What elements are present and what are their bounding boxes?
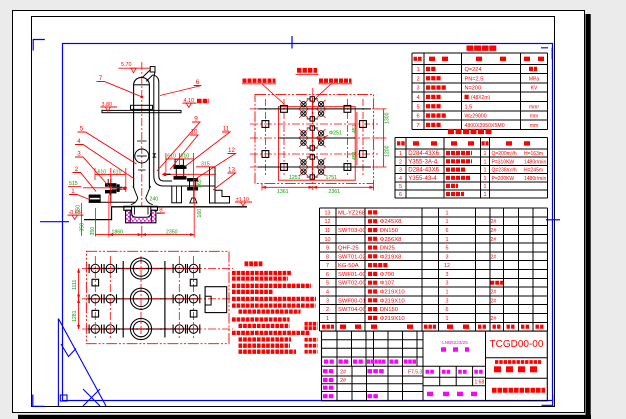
svg-text:1:68: 1:68 (475, 380, 485, 386)
svg-text:PN=2.5: PN=2.5 (465, 76, 484, 82)
svg-text:Φ251: Φ251 (329, 131, 342, 137)
elevation: valve feet (190, 198, 197, 203)
top view: label right (319, 78, 352, 82)
top view: inner vertical dim (356, 112, 358, 165)
svg-text:(48X2m): (48X2m) (471, 95, 491, 101)
table2 grid (395, 137, 548, 198)
svg-text:F7.5.3: F7.5.3 (408, 369, 422, 375)
svg-text:3: 3 (446, 272, 449, 278)
svg-text:DN150: DN150 (380, 307, 399, 313)
fold triangle (58, 319, 106, 407)
svg-text:D284-43X6: D284-43X6 (408, 150, 439, 157)
elevation: level ball inside vessel (135, 149, 149, 163)
drawing frame blue (63, 44, 553, 401)
svg-text:Y355-3A-4: Y355-3A-4 (408, 158, 438, 165)
corner mark bottom-left (33, 395, 45, 407)
centering tick right (546, 219, 560, 221)
svg-text:3: 3 (416, 86, 419, 92)
svg-text:1: 1 (484, 159, 487, 165)
svg-text:451: 451 (352, 151, 358, 160)
dim 610+610 right (166, 158, 194, 160)
top view: row centerlines (250, 108, 378, 110)
svg-text:4: 4 (77, 138, 81, 145)
svg-text:3: 3 (326, 298, 329, 304)
corner mark top-right (541, 48, 552, 60)
elevation: support post item13 (210, 167, 216, 203)
elevation: pipe joint mark (153, 154, 157, 157)
svg-text:6: 6 (416, 114, 419, 120)
inner sheet frame (32, 17, 555, 407)
svg-text:Φ219X10: Φ219X10 (380, 316, 406, 322)
svg-text:TCGD00-00: TCGD00-00 (490, 339, 544, 350)
svg-text:1: 1 (416, 67, 419, 73)
svg-text:1: 1 (446, 290, 449, 296)
svg-text:2#: 2# (491, 316, 497, 322)
svg-text:SWT03-00: SWT03-00 (338, 228, 366, 234)
svg-text:1111: 1111 (72, 280, 78, 290)
corner mark top-left (33, 40, 45, 51)
bottom dim line elevation (95, 234, 194, 236)
svg-text:150: 150 (76, 205, 82, 214)
svg-text:1: 1 (399, 151, 402, 157)
svg-text:1860: 1860 (112, 229, 124, 235)
svg-text:3: 3 (77, 151, 81, 158)
svg-text:Φ219X10: Φ219X10 (380, 290, 406, 296)
elevation: red centerline pump suction left (83, 187, 127, 189)
svg-text:H=163m: H=163m (524, 151, 543, 157)
svg-text:1: 1 (446, 210, 449, 216)
top view: centerline vertical (312, 88, 314, 190)
svg-text:SWT01-02: SWT01-02 (338, 254, 366, 260)
svg-text:1.5: 1.5 (465, 104, 473, 110)
elevation: red centerline pump suction right (162, 173, 216, 175)
title block signature rows (323, 369, 335, 373)
elevation: centerline (141, 62, 143, 226)
svg-text:5: 5 (80, 126, 84, 133)
svg-text:SWT04-00: SWT04-00 (338, 307, 366, 313)
elevation: vessel internal marks (137, 140, 147, 142)
svg-text:5.70: 5.70 (121, 62, 132, 68)
svg-text:5: 5 (326, 281, 329, 287)
table2 title (448, 129, 492, 134)
elevation: pipe top elbow cap (150, 67, 155, 72)
svg-text:2: 2 (75, 166, 79, 173)
svg-text:2#: 2# (340, 369, 346, 375)
svg-text:DN25: DN25 (380, 246, 396, 252)
svg-text:4: 4 (399, 176, 402, 182)
svg-text:6: 6 (196, 79, 200, 86)
top view: label left (243, 78, 276, 82)
fold corner square (60, 395, 67, 401)
svg-text:2#: 2# (491, 298, 497, 304)
svg-text:2#: 2# (491, 254, 497, 260)
title block right: project line (495, 360, 541, 364)
svg-text:1: 1 (484, 184, 487, 190)
top view: anchor bolt squares outer (262, 121, 269, 128)
notes: title (245, 261, 264, 266)
svg-text:Φ245X8: Φ245X8 (380, 219, 402, 225)
title block right: company (492, 388, 545, 393)
top view: bolt clusters (311, 97, 313, 121)
elevation: pipe bottom bend (154, 168, 215, 186)
BOM grid (320, 208, 548, 331)
svg-text:Φ219X8: Φ219X8 (380, 254, 402, 260)
svg-text:SWF00-01: SWF00-01 (338, 298, 366, 304)
page shadow right (586, 14, 591, 419)
svg-text:9: 9 (326, 246, 329, 252)
table2 header (397, 141, 405, 145)
svg-text:2#: 2# (491, 237, 497, 243)
title block sheet counts (427, 392, 433, 396)
top view: column centerlines (264, 99, 266, 176)
svg-text:1: 1 (484, 192, 487, 198)
title block labels row (324, 360, 334, 364)
note text beside 4.10 (197, 99, 209, 103)
plan: main pipes vertical (122, 261, 124, 338)
svg-text:11: 11 (223, 126, 230, 133)
svg-text:Y355-43-4: Y355-43-4 (408, 175, 437, 182)
svg-text:DN150: DN150 (380, 228, 399, 234)
svg-text:6: 6 (446, 228, 449, 234)
centering tick left (40, 221, 69, 223)
elevation: vessel cylinder (134, 77, 150, 188)
top view: inner foundation rect (278, 107, 355, 181)
svg-text:610: 610 (113, 169, 122, 175)
svg-text:12: 12 (325, 219, 331, 225)
svg-text:1: 1 (484, 151, 487, 157)
svg-text:1: 1 (484, 176, 487, 182)
svg-text:13: 13 (228, 167, 235, 174)
svg-text:610: 610 (181, 154, 190, 160)
elevation: left valve flanges (106, 184, 117, 187)
svg-text:610: 610 (167, 154, 176, 160)
svg-text:H=245m: H=245m (524, 168, 543, 174)
elevation: left pump block (89, 195, 100, 202)
elevation: foundation cap (124, 206, 158, 210)
svg-text:610: 610 (98, 169, 107, 175)
svg-text:3: 3 (446, 254, 449, 260)
svg-text:1: 1 (326, 316, 329, 322)
svg-text:Φ256X8: Φ256X8 (380, 237, 402, 243)
elevation: riser pipe (154, 72, 155, 168)
svg-text:4: 4 (326, 290, 329, 296)
svg-text:12: 12 (444, 263, 450, 269)
svg-text:Φ700: Φ700 (380, 272, 395, 278)
elevation: foundation hatched block (126, 210, 156, 223)
svg-text:W≥29000: W≥29000 (465, 114, 487, 120)
svg-text:13: 13 (325, 210, 331, 216)
corner mark bottom-right (542, 395, 554, 406)
svg-text:P=200KW: P=200KW (492, 176, 515, 182)
top view: outer dash-dot rect (255, 94, 374, 183)
elevation: vessel top seam (134, 84, 150, 86)
title block middle headers (426, 370, 436, 374)
svg-text:8: 8 (159, 207, 163, 214)
plan: main pipes horizontal (88, 268, 200, 270)
svg-text:4800X3950X5M0: 4800X3950X5M0 (465, 123, 505, 129)
top view: right dim (383, 109, 385, 167)
svg-text:MPa: MPa (529, 76, 540, 82)
svg-text:mm: mm (530, 114, 538, 120)
title block left grid (322, 339, 424, 341)
svg-text:1200: 1200 (385, 145, 391, 157)
svg-text:1: 1 (446, 219, 449, 225)
svg-text:6: 6 (326, 272, 329, 278)
plan: red centerlines (82, 268, 233, 270)
svg-text:5: 5 (446, 246, 449, 252)
svg-text:Q=238m³/h: Q=238m³/h (492, 168, 517, 174)
svg-text:6: 6 (399, 192, 402, 198)
elevation: left stub to gauge (112, 186, 123, 188)
svg-text:1281: 1281 (72, 310, 78, 322)
svg-text:D284-43X6: D284-43X6 (408, 167, 439, 174)
elevation: left pump base line (100, 201, 135, 203)
plan: dash-dot border (86, 251, 229, 343)
table1 title (467, 46, 498, 51)
svg-text:ML-YZ268: ML-YZ268 (338, 210, 365, 216)
svg-text:3: 3 (446, 298, 449, 304)
svg-text:240: 240 (150, 197, 159, 203)
svg-text:1: 1 (446, 316, 449, 322)
svg-text:Φ107: Φ107 (380, 281, 395, 287)
elevation: target dot left (123, 187, 127, 191)
plan: tank right (205, 287, 227, 313)
svg-text:mm: mm (530, 123, 538, 129)
svg-text:7: 7 (326, 263, 329, 269)
svg-text:5: 5 (416, 104, 419, 110)
svg-text:Φ219X10: Φ219X10 (380, 298, 406, 304)
svg-text:1251: 1251 (289, 175, 301, 181)
svg-text:2: 2 (416, 76, 419, 82)
svg-text:350: 350 (80, 223, 86, 232)
svg-text:10: 10 (325, 237, 331, 243)
svg-text:P=310KW: P=310KW (492, 159, 515, 165)
svg-text:SWF01-00: SWF01-00 (338, 272, 366, 278)
svg-text:4: 4 (416, 95, 419, 101)
svg-text:1480r/min: 1480r/min (524, 159, 546, 165)
elevation: ground line (84, 207, 247, 220)
svg-text:1: 1 (484, 168, 487, 174)
table1 header (414, 57, 423, 61)
svg-text:KG-50A: KG-50A (338, 263, 359, 269)
centering tick top (291, 36, 293, 49)
plan: big pump circles (130, 258, 151, 279)
elevation: step block item13 (215, 190, 230, 203)
elevation: support plate (102, 110, 181, 112)
svg-text:1751: 1751 (326, 175, 338, 181)
svg-text:1480r/min: 1480r/min (524, 176, 546, 182)
svg-text:mm²: mm² (529, 104, 539, 110)
elevation: suction funnel (133, 186, 151, 198)
svg-text:1361: 1361 (277, 189, 289, 195)
svg-text:N=200: N=200 (465, 86, 482, 92)
svg-text:451: 451 (352, 124, 358, 133)
notes: right tags (305, 322, 318, 326)
elevation: left suction pipe vertical (110, 179, 112, 202)
svg-text:Q=200m³/h: Q=200m³/h (492, 151, 517, 157)
svg-text:2: 2 (399, 159, 402, 165)
svg-text:2: 2 (326, 307, 329, 313)
BOM header (322, 325, 334, 329)
svg-text:KV: KV (531, 86, 538, 92)
title block right: drawing title (494, 366, 501, 372)
elevation: valve V2 flanges (188, 179, 198, 181)
svg-text:10: 10 (191, 129, 198, 136)
svg-text:160: 160 (197, 209, 203, 218)
elevation: support column (172, 186, 182, 203)
svg-text:11: 11 (325, 228, 331, 234)
svg-text:7: 7 (416, 123, 419, 129)
plan: square fittings (92, 279, 99, 286)
elevation: valve V1 actuator (175, 159, 183, 165)
dim 610+610 left (95, 174, 126, 176)
svg-text:2361: 2361 (329, 189, 341, 195)
svg-text:12: 12 (228, 147, 235, 154)
svg-text:2350: 2350 (166, 229, 178, 235)
svg-text:SWT02-00: SWT02-00 (338, 281, 366, 287)
svg-text:Q=224: Q=224 (465, 67, 482, 73)
svg-text:8: 8 (326, 254, 329, 260)
svg-text:3: 3 (446, 281, 449, 287)
svg-text:9: 9 (194, 116, 198, 123)
elevation: valve V1 flanges (174, 166, 186, 169)
elevation: riser pipe swan neck (142, 70, 150, 78)
elevation: vessel flange band (131, 105, 153, 109)
svg-text:3: 3 (399, 168, 402, 174)
svg-text:2#: 2# (491, 228, 497, 234)
svg-text:QHF-25: QHF-25 (338, 246, 359, 252)
elevation: target dot right (163, 173, 167, 177)
svg-text:1: 1 (446, 237, 449, 243)
svg-text:5: 5 (399, 184, 402, 190)
svg-text:1300: 1300 (385, 112, 391, 124)
page shadow bottom (18, 415, 591, 419)
svg-text:7: 7 (99, 75, 103, 82)
svg-text:2#: 2# (491, 219, 497, 225)
bell mouth inside foundation (132, 207, 151, 218)
plan: small valve circles (91, 264, 99, 272)
table1 grid (412, 53, 547, 129)
top view: title (297, 68, 317, 73)
title block outline (322, 331, 548, 401)
svg-text:1: 1 (71, 188, 75, 195)
svg-text:2#: 2# (340, 378, 346, 384)
svg-text:2#: 2# (491, 290, 497, 296)
top view: black row lines (258, 108, 371, 110)
svg-text:6: 6 (446, 307, 449, 313)
fold X mark (83, 389, 100, 406)
svg-text:LNB8223/25: LNB8223/25 (442, 340, 468, 345)
notes: body lines (232, 271, 291, 275)
svg-text:165: 165 (197, 179, 203, 188)
